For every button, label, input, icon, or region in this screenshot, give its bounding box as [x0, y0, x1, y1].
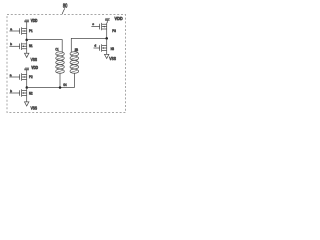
label VSS (right) — [109, 56, 116, 61]
label P2 — [29, 75, 33, 79]
enclosure dashed box — [7, 15, 126, 113]
supply symbol VDD (right cell) — [105, 18, 110, 20]
label VDD (top-left) — [31, 18, 38, 23]
wire L2 top to node C — [71, 38, 106, 52]
wire gate input P3 — [91, 26, 99, 28]
transistor N3 — [100, 44, 107, 51]
svg-text:b: b — [10, 42, 12, 46]
wire VDD to P1 source — [26, 22, 28, 29]
label N3 — [111, 47, 114, 51]
wire node B common bottom rail — [27, 87, 75, 89]
wire P1 drain to node A — [26, 33, 28, 40]
transistor N1 — [20, 43, 27, 50]
transistor P2 — [20, 73, 27, 80]
label P3 — [112, 29, 116, 33]
svg-text:VSS: VSS — [109, 56, 116, 61]
net label 04 on bottom rail — [63, 83, 66, 87]
inductor L2 — [70, 52, 79, 74]
wire L2 bottom to node B rail — [74, 73, 76, 88]
svg-text:VDD: VDD — [115, 16, 124, 22]
svg-text:VDD: VDD — [31, 18, 38, 23]
node A junction dot — [25, 39, 28, 42]
label L2 winding — [75, 48, 79, 52]
node B junction dot — [26, 86, 29, 89]
svg-text:80: 80 — [63, 4, 67, 10]
svg-text:P2: P2 — [29, 75, 33, 79]
label VSS (bottom-left) — [31, 106, 38, 111]
svg-text:c: c — [92, 22, 94, 26]
svg-text:d: d — [94, 43, 96, 47]
label VDD (right) — [115, 16, 124, 22]
leader line from numeral 80 to enclosure — [62, 8, 65, 14]
wire L1 bottom to node B rail — [59, 73, 61, 88]
wire gate input N2 — [9, 92, 19, 94]
gate input label a (P1) — [10, 27, 12, 31]
wire VDD to P3 source — [106, 20, 109, 24]
wire gate input N1 — [9, 45, 19, 47]
label N2 — [29, 91, 33, 95]
wire VDD to P2 source — [26, 70, 28, 75]
label P1 — [29, 29, 33, 33]
svg-text:a: a — [10, 27, 12, 31]
gate input label b (N1) — [10, 42, 12, 46]
svg-text:2B: 2B — [75, 48, 79, 52]
svg-text:b: b — [10, 89, 12, 93]
ground symbol VSS (top-left cell) — [25, 53, 29, 57]
label VDD (bottom-left) — [31, 65, 38, 70]
svg-text:N2: N2 — [29, 91, 33, 95]
reference numeral 80 — [63, 4, 67, 10]
gate input label a (P2) — [10, 73, 12, 77]
wire N2 source to ground — [26, 95, 28, 102]
gate input label d (N3) — [94, 43, 96, 47]
wire gate input N3 — [94, 47, 100, 49]
label N1 — [29, 44, 33, 48]
wire P2 drain to node B — [26, 79, 28, 87]
svg-text:C1: C1 — [55, 47, 58, 51]
label L1 winding — [55, 47, 58, 51]
wire node A to N1 drain — [26, 40, 28, 44]
wire N3 source to ground — [106, 50, 108, 54]
junction dot L1 bottom on rail — [59, 86, 62, 89]
svg-text:P3: P3 — [112, 29, 116, 33]
inductor L1 — [56, 52, 65, 74]
wire node C to N3 drain — [106, 38, 108, 45]
wire node B to N2 drain — [26, 88, 28, 91]
svg-text:04: 04 — [63, 83, 66, 87]
svg-text:VDD: VDD — [31, 65, 38, 70]
wire P3 drain to node C — [106, 29, 108, 38]
label VSS (top-left) — [31, 57, 38, 62]
gate input label b (N2) — [10, 89, 12, 93]
ground symbol VSS (bottom-left cell) — [25, 102, 29, 106]
wire gate input P1 — [9, 30, 19, 32]
svg-text:VSS: VSS — [31, 57, 38, 62]
svg-text:a: a — [10, 73, 12, 77]
svg-text:P1: P1 — [29, 29, 33, 33]
transistor P1 — [20, 27, 27, 34]
supply symbol VDD (bottom-left cell) — [24, 68, 29, 70]
wire gate input P2 — [9, 76, 19, 78]
supply symbol VDD (top-left cell) — [24, 20, 29, 22]
ground symbol VSS (right cell) — [105, 54, 109, 58]
wire N1 source to ground — [26, 49, 28, 54]
gate input label c (P3) — [92, 22, 94, 26]
svg-text:N1: N1 — [29, 44, 33, 48]
transistor P3 — [100, 23, 107, 30]
node C junction dot — [105, 37, 108, 40]
transistor N2 — [20, 89, 27, 96]
wire node A to L1 top — [27, 40, 63, 52]
svg-text:VSS: VSS — [31, 106, 38, 111]
svg-text:N3: N3 — [111, 47, 114, 51]
